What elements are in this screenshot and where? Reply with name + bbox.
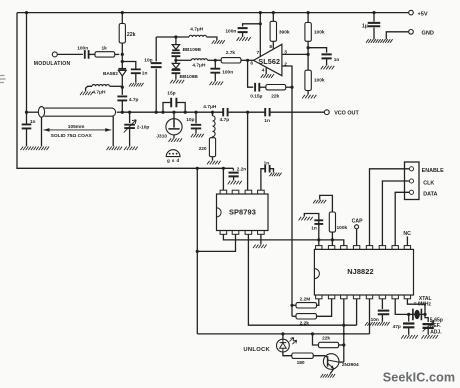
svg-text:105mm: 105mm <box>68 124 85 130</box>
wire NJ8822 pin3b down to collector node <box>343 299 345 345</box>
svg-text:NJ8822: NJ8822 <box>347 267 374 276</box>
NJ8822 pin bottom x356.6 <box>353 295 359 299</box>
node VCO tap to divider <box>246 111 249 114</box>
node 100n/2.7k junction <box>214 59 217 62</box>
svg-text:BB109B: BB109B <box>183 47 202 53</box>
NJ8822 pin top x318.8 <box>316 246 322 250</box>
capacitor 100n modulation coupling <box>85 50 89 59</box>
svg-text:MODULATION: MODULATION <box>34 61 71 67</box>
NJ8822 pin bottom x407.4 <box>404 295 410 299</box>
svg-text:4.7μH: 4.7μH <box>192 63 206 69</box>
inductor 4.7uH choke to ground <box>110 85 123 87</box>
svg-text:CLK: CLK <box>423 180 434 186</box>
node SP8793 pin1 top supply <box>222 167 225 170</box>
svg-text:1μ: 1μ <box>362 23 368 29</box>
pin bottom x248.4 <box>245 231 252 235</box>
pin bottom x223.4 <box>220 231 227 235</box>
connector pin CLK <box>409 179 413 183</box>
svg-text:SeekIC.com: SeekIC.com <box>383 370 455 384</box>
capacitor 1n coax feed decoupling <box>22 124 32 128</box>
connector pin ENABLE <box>409 167 413 171</box>
svg-text:47p: 47p <box>393 324 401 330</box>
svg-text:15p: 15p <box>167 91 175 97</box>
NJ8822 pin bottom x382.4 <box>379 295 385 299</box>
pin 3 output wire <box>282 53 308 55</box>
svg-text:22k: 22k <box>127 32 136 38</box>
node MODULATION input <box>52 52 57 57</box>
IC U2 SP8793 <box>217 194 269 231</box>
ground coax right <box>107 147 123 151</box>
svg-text:SL562: SL562 <box>258 57 280 66</box>
wire +5V top supply rail <box>17 12 409 14</box>
wire 180 to base <box>313 356 327 358</box>
svg-text:0.15μ: 0.15μ <box>250 94 262 100</box>
node BA582 anode <box>121 60 124 63</box>
svg-text:100n: 100n <box>222 70 233 76</box>
NJ8822 pin bottom x369.5 <box>366 295 372 299</box>
svg-text:1n: 1n <box>30 119 36 125</box>
varactor diode BB109B upper <box>175 37 177 44</box>
capacitor C 1u supply decoupling <box>372 11 375 14</box>
NJ8822 pin bottom x318.8 <box>316 295 322 299</box>
wire fv line down to divider resistors <box>291 87 293 316</box>
svg-text:g s d: g s d <box>167 158 180 163</box>
capacitor 0.15u feedback <box>248 60 254 87</box>
dimension arrow 105mm <box>44 129 112 131</box>
wire supply to coax line <box>25 11 28 14</box>
pin bottom x235.5 <box>232 231 239 235</box>
svg-text:7: 7 <box>257 50 260 56</box>
NJ8822 pin top x331.6 <box>328 246 334 250</box>
varactor diode BB109B lower <box>172 63 179 68</box>
resistor 2.2M <box>317 299 319 306</box>
resistor 100k lower <box>305 70 311 90</box>
svg-text:2: 2 <box>284 61 287 67</box>
resistor 180 <box>292 353 313 358</box>
capacitor 10p source <box>194 111 197 114</box>
svg-text:4.7μH: 4.7μH <box>203 104 217 110</box>
J310 package outline g s d <box>166 150 180 157</box>
pin top x223.4 <box>220 190 227 194</box>
wire DATA to pin7t <box>395 192 409 245</box>
svg-text:J310: J310 <box>156 134 167 140</box>
capacitor 4.7p series <box>223 108 227 116</box>
svg-text:100n: 100n <box>77 45 88 51</box>
node BA582 cathode / RF choke <box>121 86 124 89</box>
emitter to ground <box>330 369 334 374</box>
svg-text:2.7k: 2.7k <box>226 50 236 56</box>
NJ8822 pin top x369.5 <box>366 246 372 250</box>
capacitor 1n at divider <box>308 48 327 53</box>
transistor Q1 2N3904 <box>323 354 339 370</box>
NJ8822 pin bottom x395.2 <box>392 295 398 299</box>
pin 7 decoupling 100n <box>259 22 262 25</box>
capacitor 1n loop filter <box>304 214 319 226</box>
svg-text:22k: 22k <box>322 336 330 342</box>
wire to 1n cap <box>122 62 136 70</box>
resistor 220 <box>212 137 214 138</box>
resistor 100k upper <box>307 11 310 14</box>
svg-text:1n: 1n <box>264 160 270 166</box>
node GND terminal <box>409 30 414 35</box>
capacitor 47p <box>407 313 410 316</box>
node 22k/1k junction <box>121 53 124 56</box>
capacitor 1n series to VCO out <box>265 108 269 116</box>
capacitor 100n to ground <box>214 60 216 68</box>
node frame/divider supply tap <box>196 167 199 170</box>
capacitor 4.7p coupling to coax line <box>121 87 123 95</box>
svg-text:180: 180 <box>297 360 305 366</box>
wire NJ8822 pin4b to lock line <box>356 299 358 325</box>
svg-text:SP8793: SP8793 <box>229 208 256 217</box>
wire ENABLE to pin5t <box>370 169 410 246</box>
wire varactor bias line <box>156 36 189 38</box>
IC U3 NJ8822 <box>314 249 413 295</box>
resistor 390k pin8 bias <box>272 11 275 14</box>
inductor 4.7uH lower <box>176 59 191 61</box>
node varactor string top <box>174 35 177 38</box>
coax resonator body 105mm <box>38 107 44 118</box>
node fv junction <box>290 304 293 307</box>
connector pin DATA <box>409 190 413 194</box>
resistor 22k feedback <box>266 85 286 90</box>
svg-text:1k: 1k <box>102 46 108 52</box>
pin bottom x260.9 <box>258 231 265 235</box>
node VCO OUT terminal <box>324 110 329 115</box>
svg-text:UNLOCK: UNLOCK <box>243 347 270 353</box>
capacitor 2.2n decoupling <box>232 168 234 170</box>
svg-text:2.2n: 2.2n <box>237 166 247 172</box>
svg-text:1n: 1n <box>142 70 148 76</box>
svg-text:10n: 10n <box>371 317 379 323</box>
svg-text:DATA: DATA <box>423 192 437 198</box>
wire R1k to node <box>115 53 120 55</box>
node filter junctions <box>317 238 320 241</box>
trimmer capacitor 2-10p <box>128 111 131 114</box>
wire C100n to R1k <box>89 53 95 55</box>
svg-text:4.7p: 4.7p <box>220 117 230 123</box>
ground coax left <box>21 147 50 151</box>
wire SP8793 pin2b to supply line <box>197 234 235 251</box>
resistor 22k lock <box>311 332 314 335</box>
LED UNLOCK indicator <box>281 332 284 335</box>
node output/divider <box>307 46 310 49</box>
resistor 22k bias <box>121 11 124 14</box>
svg-text:2N3904: 2N3904 <box>342 362 359 368</box>
NJ8822 pin top x343.8 <box>341 246 347 250</box>
node 4.7p tap <box>121 111 124 114</box>
svg-text:ENABLE: ENABLE <box>422 168 445 174</box>
svg-text:8: 8 <box>269 44 272 50</box>
diode BA582 <box>118 68 126 70</box>
node crystal right <box>423 313 426 316</box>
wire NJ pin8b over to trimmer node <box>407 299 425 315</box>
pin 2 wire to feedback <box>282 66 292 87</box>
resistor 2.2k <box>317 299 332 317</box>
svg-text:10p: 10p <box>186 117 194 123</box>
capacitor 1n at SP8793 pin4 <box>261 169 265 191</box>
wire LED to 180 <box>283 352 292 356</box>
node coax feed <box>25 111 28 114</box>
wire coax output <box>117 111 123 113</box>
node 22k/collector <box>343 333 346 336</box>
resistor 100k loop filter <box>320 195 333 212</box>
ground SP8793 pin4b <box>260 234 262 244</box>
wire NJ pin5b down <box>369 299 371 334</box>
resistor 1k <box>95 52 115 57</box>
svg-text:4.7μH: 4.7μH <box>190 26 204 32</box>
node +5V terminal <box>409 10 414 15</box>
crystal XTAL 9MHz <box>413 309 422 321</box>
svg-text:100k: 100k <box>314 30 325 36</box>
wire SP8793 pin1b to loop filter line <box>223 234 343 245</box>
svg-text:22k: 22k <box>271 93 279 99</box>
pin 7 supply wire <box>259 13 261 57</box>
svg-text:220: 220 <box>199 146 207 152</box>
svg-text:GND: GND <box>422 31 434 37</box>
inductor 4.7uH upper <box>189 35 207 37</box>
svg-text:10p: 10p <box>144 58 152 64</box>
pin 4 ground <box>265 67 267 74</box>
op-amp U1 SL562 triangle <box>254 44 282 75</box>
NJ8822 pin top x382.4 <box>379 246 385 250</box>
NJ8822 pin bottom x343.8 <box>341 295 347 299</box>
svg-text:390k: 390k <box>279 30 290 36</box>
svg-text:CAP: CAP <box>352 218 363 224</box>
NJ8822 pin top x407.4 <box>404 246 410 250</box>
wire main oscillator line <box>122 111 324 113</box>
wire modulation to C100n <box>57 53 83 55</box>
inductor 4.7uH drain <box>211 111 214 114</box>
node feedback junction <box>290 86 293 89</box>
pin top x248.4 <box>245 190 252 194</box>
svg-text:2-10p: 2-10p <box>137 124 150 130</box>
svg-text:NC: NC <box>403 231 411 237</box>
svg-text:REF.: REF. <box>430 323 441 329</box>
svg-text:1n: 1n <box>334 57 340 63</box>
svg-text:2.2k: 2.2k <box>300 320 310 326</box>
svg-text:BA582: BA582 <box>103 71 118 77</box>
svg-text:6: 6 <box>250 61 253 67</box>
transistor Q J310 FET oscillator <box>172 111 175 114</box>
NJ8822 pin bottom x331.6 <box>328 295 334 299</box>
svg-text:1n: 1n <box>311 226 317 232</box>
svg-text:4.7μH: 4.7μH <box>92 89 106 95</box>
svg-text:3: 3 <box>284 49 287 55</box>
connector ENABLE/CLK/DATA <box>405 162 420 200</box>
pin top x235.5 <box>232 190 239 194</box>
wire SP8793 pin3b output down <box>248 234 356 325</box>
svg-text:SOLID 75Ω COAX: SOLID 75Ω COAX <box>51 133 93 139</box>
wire frame tap down to SP8793 <box>196 168 198 334</box>
ground for 1n filter <box>299 217 313 221</box>
wire CLK to pin6t <box>382 181 409 246</box>
capacitor 15p gate bridge <box>161 111 164 114</box>
pin top x260.9 <box>258 190 265 194</box>
svg-text:BB109B: BB109B <box>180 74 199 80</box>
node 10p tap on line <box>155 111 158 114</box>
node varactor mid <box>174 59 177 62</box>
wire lock-detect line <box>197 333 369 335</box>
capacitor 10n <box>381 299 383 309</box>
ground for 1u and GND terminal <box>366 39 393 43</box>
margin mark <box>0 76 6 83</box>
svg-text:ADJ.: ADJ. <box>430 330 442 336</box>
capacitor 10p tuning tap <box>155 37 157 112</box>
svg-text:100k: 100k <box>314 78 325 84</box>
coax ground stubs <box>42 116 114 146</box>
svg-text:+5V: +5V <box>418 11 428 17</box>
svg-text:4: 4 <box>262 68 265 74</box>
svg-text:100k: 100k <box>337 225 348 231</box>
wire NJ pin7b to crystal line <box>395 299 425 315</box>
resistor 2.7k to amp input <box>215 59 221 61</box>
NJ8822 pin top x356.6 <box>353 246 359 250</box>
svg-text:2.2M: 2.2M <box>300 296 311 302</box>
NJ8822 pin top x395.2 <box>392 246 398 250</box>
svg-text:1n: 1n <box>264 118 270 124</box>
node amp input junction <box>246 59 249 62</box>
svg-text:VCO OUT: VCO OUT <box>334 111 359 117</box>
capacitor 1n at BA582 node <box>131 69 141 73</box>
trimmer capacitor 5-65p REF ADJ <box>423 324 434 328</box>
svg-text:4.7p: 4.7p <box>129 97 139 103</box>
wire shield box frame left and bottom <box>17 13 233 169</box>
ground below lower BB109B <box>170 80 184 84</box>
svg-text:100n: 100n <box>225 28 236 34</box>
